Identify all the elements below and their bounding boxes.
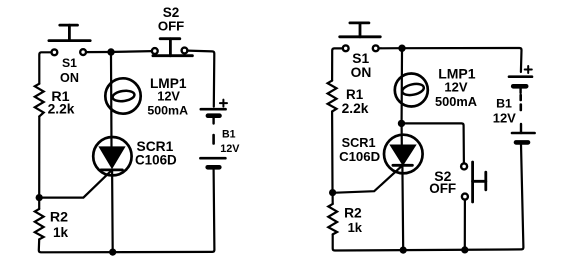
wire junction to S2 branch (405, 123, 464, 163)
wire (39, 169, 215, 252)
wire top-left stub to S1 (39, 52, 51, 83)
battery plate short 1 (513, 84, 526, 89)
svg-text:ON: ON (351, 65, 372, 80)
node bottom junction left (109, 249, 116, 256)
battery B1 right (509, 66, 535, 142)
wire lamp branch vertical (110, 56, 113, 147)
svg-text:S1: S1 (352, 51, 369, 66)
switch S1 (pushbutton NO) (49, 25, 90, 40)
battery plate long 2 (512, 132, 535, 135)
battery dash (212, 135, 215, 144)
svg-text:500mA: 500mA (147, 103, 188, 117)
node bottom junction s2 (461, 246, 468, 253)
svg-text:C106D: C106D (339, 149, 380, 164)
wire S1 to top junction (86, 51, 107, 53)
SCR1 right (thyristor) (384, 135, 423, 174)
wire S2 to battery corner (187, 51, 214, 107)
wire gate right (333, 166, 402, 192)
wire cathode down right (401, 165, 404, 250)
resistor R2 (328, 204, 337, 235)
wire junction to battery (406, 48, 522, 72)
svg-text:OFF: OFF (158, 18, 184, 33)
node junction below lamp (398, 120, 405, 127)
battery stub (520, 124, 522, 133)
wire cathode down (111, 170, 114, 252)
battery plate long 2 (200, 157, 225, 160)
wire junction to S2 (115, 50, 152, 53)
node top junction right (398, 45, 405, 52)
svg-text:12V: 12V (444, 80, 467, 95)
SCR1 (thyristor) (93, 137, 131, 175)
svg-text:OFF: OFF (429, 181, 456, 196)
svg-text:B1: B1 (222, 129, 236, 141)
battery stub (212, 116, 214, 124)
svg-text:ON: ON (60, 71, 79, 85)
battery dash (519, 105, 522, 111)
battery plate long 1 (509, 75, 532, 78)
battery B1 left (200, 100, 227, 168)
svg-text:1k: 1k (348, 220, 363, 235)
wire bottom rail right circuit (333, 144, 524, 250)
switch S2 (pushbutton NC) (153, 39, 193, 56)
wire S2 bottom to rail (464, 200, 466, 250)
svg-text:12V: 12V (493, 110, 516, 125)
switch S1 right (pushbutton NO) (340, 23, 381, 37)
resistor R1 (35, 84, 44, 117)
battery plate short 1 (208, 113, 220, 118)
node bottom junction scr (400, 247, 407, 254)
svg-text:R2: R2 (344, 205, 362, 220)
wire top-left stub to S1 (332, 48, 343, 80)
svg-text:1k: 1k (53, 225, 69, 240)
svg-text:2.2k: 2.2k (48, 102, 75, 117)
svg-text:S1: S1 (62, 56, 77, 70)
lamp LMP1 right (395, 74, 428, 107)
battery plate short 2 (516, 140, 528, 145)
wire S1 to junction and battery corner (379, 47, 399, 49)
svg-text:R2: R2 (50, 209, 68, 225)
wire gate (39, 171, 110, 197)
node top junction left (107, 48, 114, 55)
wire (332, 193, 334, 204)
svg-text:2.2k: 2.2k (342, 101, 369, 116)
battery plate long 1 (201, 108, 226, 111)
resistor R2 (35, 209, 44, 239)
svg-text:R1: R1 (346, 87, 364, 102)
wire lamp branch vertical right (401, 52, 404, 120)
plus sign (220, 100, 227, 107)
svg-text:12V: 12V (220, 143, 240, 155)
lamp LMP1 (105, 78, 140, 113)
battery stub (519, 86, 521, 93)
svg-text:C106D: C106D (135, 152, 177, 167)
resistor R1 (328, 81, 337, 112)
svg-text:SCR1: SCR1 (342, 136, 376, 150)
wire anode stub (401, 123, 403, 145)
wire left rail (38, 116, 40, 194)
plus sign (525, 66, 532, 73)
svg-text:B1: B1 (496, 97, 512, 111)
node gate junction left (36, 194, 43, 201)
wire (38, 198, 40, 209)
node gate junction right (329, 189, 336, 196)
battery plate short 2 (208, 165, 220, 170)
svg-text:500mA: 500mA (435, 94, 477, 109)
wire left rail (331, 112, 334, 190)
svg-text:12V: 12V (157, 88, 180, 103)
switch S2 right (pushbutton NC vertical) (473, 162, 486, 202)
battery dash (519, 95, 522, 100)
